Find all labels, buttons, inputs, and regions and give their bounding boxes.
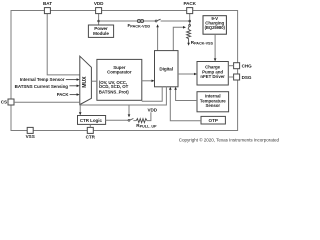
svg-text:nFET Driver: nFET Driver [200, 74, 225, 79]
outer device boundary [11, 11, 238, 131]
svg-text:RPULL_UP: RPULL_UP [136, 123, 157, 129]
svg-text:VDD: VDD [148, 107, 158, 112]
control wire Digital to switch S2 [173, 27, 183, 50]
node VDD junction [97, 20, 100, 23]
resistor R_PACK-VSS [187, 29, 191, 43]
fuse F_PACK-VDD [137, 19, 143, 22]
svg-text:BAT: BAT [43, 1, 52, 6]
box Charge Pump and nFET Driver [197, 62, 228, 86]
switch S2 (PACK-VSS) [189, 25, 191, 27]
svg-text:BATSNS_Prot): BATSNS_Prot) [99, 89, 129, 94]
svg-text:BATSNS Current Sensing: BATSNS Current Sensing [15, 84, 69, 89]
box CTR Logic [78, 116, 106, 125]
switch S3 (CTR pull-up) [128, 119, 130, 121]
svg-text:DSG: DSG [242, 75, 252, 80]
svg-text:FPACK-VDD: FPACK-VDD [128, 23, 151, 29]
svg-text:RPACK-VSS: RPACK-VSS [191, 40, 214, 46]
resistor R_PULL_UP [136, 119, 147, 123]
wire VDD junction to fuse [99, 20, 156, 22]
svg-text:VDD: VDD [94, 1, 104, 6]
svg-text:Digital: Digital [159, 66, 173, 71]
svg-text:Comparator: Comparator [107, 69, 132, 74]
wire CS to MUX [14, 101, 80, 103]
wire PACK pin down [189, 14, 191, 25]
wire Charge Pump to CHG pin [228, 65, 233, 67]
pin CS [8, 99, 14, 105]
arrow to VSS at resistor bottom [187, 43, 190, 46]
box OTP [201, 116, 225, 124]
svg-text:PACK: PACK [183, 1, 196, 6]
pin VSS [27, 127, 33, 133]
svg-text:Module: Module [93, 31, 109, 36]
wire OTP to Digital [170, 90, 201, 121]
mux MUX [80, 56, 92, 104]
wire Digital to MUX select and CTR Logic [80, 87, 166, 105]
box Power Module [88, 25, 113, 37]
wire MUX select down to CTR Logic [79, 105, 81, 113]
svg-text:Copyright © 2020, Texas Instru: Copyright © 2020, Texas Instruments Inco… [179, 137, 280, 143]
box Super Comparator [97, 59, 142, 100]
box 9-V Charging (BQ25980) [203, 16, 226, 35]
svg-text:CTR: CTR [86, 134, 96, 139]
wire switch S1 to PACK node [161, 20, 190, 22]
wire switch S3 to resistor [133, 120, 136, 122]
pin CHG [234, 63, 240, 69]
svg-text:CHG: CHG [242, 64, 253, 69]
svg-text:MUX: MUX [82, 76, 88, 88]
wire BATSNS arrow [69, 85, 77, 87]
svg-text:(BQ25980): (BQ25980) [205, 25, 226, 30]
wire 9-V Charging to Charge Pump [214, 34, 216, 59]
pin VDD [96, 8, 102, 14]
pin PACK [187, 8, 193, 14]
wire Internal Temperature Sensor to Digital [176, 90, 197, 101]
svg-text:VSS: VSS [26, 134, 35, 139]
pin BAT [44, 8, 50, 14]
box Digital [155, 51, 179, 87]
svg-text:CS: CS [1, 100, 7, 105]
wire control branch to CTR switch [128, 105, 130, 115]
wire Charge Pump to DSG pin [228, 76, 233, 78]
wire Super Comparator corner to Digital bottom [142, 87, 162, 102]
wire PACK arrow [70, 94, 77, 96]
box Internal Temperature Sensor [197, 92, 229, 112]
wire BAT to MUX [47, 14, 80, 75]
svg-text:OTP: OTP [209, 118, 218, 123]
svg-text:Internal Temp Sensor: Internal Temp Sensor [20, 77, 65, 82]
control wire Digital to switch S1 [157, 27, 159, 51]
wire Super Comparator to Digital [142, 80, 152, 82]
pin CTR [87, 127, 93, 133]
wire resistor to VDD [147, 112, 151, 120]
svg-text:CTR Logic: CTR Logic [80, 118, 103, 123]
pin DSG [234, 74, 240, 80]
svg-text:PACK: PACK [57, 92, 70, 97]
wire CTR Logic to switch S3 [106, 119, 129, 121]
svg-text:Sensor: Sensor [206, 103, 221, 108]
wire Digital to Charge Pump [178, 73, 194, 75]
wire Internal Temp Sensor arrow [66, 79, 77, 81]
wire CTR Logic to CTR pin [89, 124, 91, 127]
switch S1 (PACK-VDD) [155, 20, 157, 22]
node PACK junction [188, 20, 191, 23]
wire MUX to Super Comparator [91, 80, 97, 82]
wire VDD down to junction and Power Module [98, 14, 100, 25]
